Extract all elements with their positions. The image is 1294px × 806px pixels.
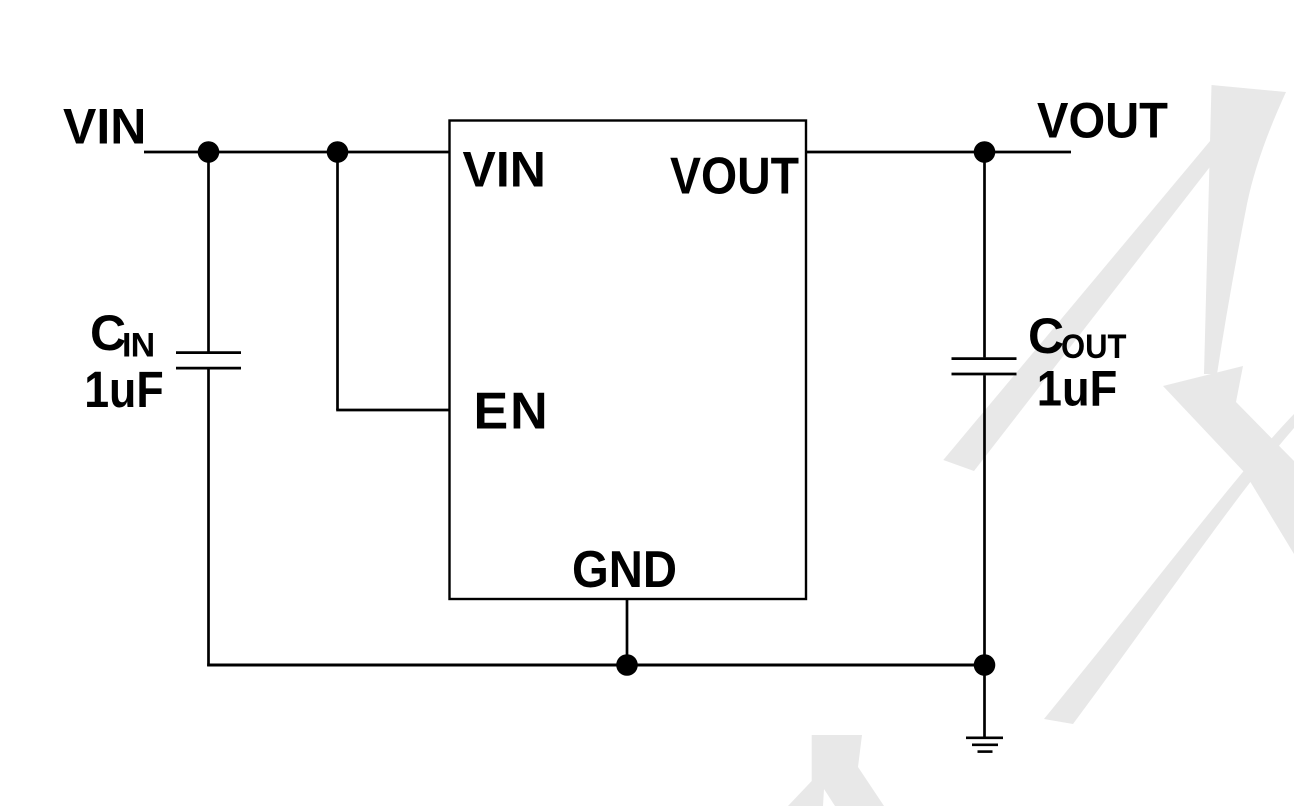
svg-text:GND: GND	[572, 541, 677, 599]
junction node VIN-CIN	[198, 141, 220, 163]
wire COUT top branch	[983, 152, 986, 357]
wire GND pin	[626, 599, 629, 665]
svg-text:VIN: VIN	[463, 142, 546, 198]
svg-text:C: C	[90, 305, 126, 361]
svg-text:C: C	[1028, 308, 1064, 364]
svg-text:VOUT: VOUT	[670, 148, 799, 206]
wire COUT bottom branch	[983, 375, 986, 665]
capacitor C_IN plates	[176, 351, 241, 354]
svg-text:VOUT: VOUT	[1037, 93, 1168, 149]
junction node COUT-ground	[974, 654, 996, 676]
junction node VIN-EN	[327, 141, 349, 163]
wire EN branch horizontal	[336, 409, 449, 412]
svg-text:IN: IN	[122, 327, 154, 365]
junction node VOUT-COUT	[974, 141, 996, 163]
watermark logo	[788, 85, 1294, 806]
svg-text:1uF: 1uF	[1037, 361, 1118, 417]
svg-text:VIN: VIN	[63, 99, 146, 155]
wire VIN to U1	[144, 151, 450, 154]
capacitor C_OUT plates	[952, 357, 1017, 360]
svg-text:1uF: 1uF	[84, 361, 164, 418]
wire CIN top branch	[207, 152, 210, 352]
regulator U1 body	[450, 121, 807, 600]
wire EN branch vertical	[336, 152, 339, 410]
svg-text:EN: EN	[474, 383, 550, 441]
watermark stroke bottom-arrow	[788, 735, 884, 806]
watermark stroke X-southwest-bar	[1044, 414, 1294, 724]
junction node GND-bus	[616, 654, 638, 676]
wire U1 VOUT to output	[806, 151, 1071, 154]
wire ground bus	[207, 664, 985, 667]
wire ground stem	[983, 665, 986, 737]
watermark stroke X-northwest-bar	[1163, 366, 1294, 554]
watermark stroke 4-diagonal	[943, 140, 1231, 471]
watermark stroke 4-right	[1204, 85, 1286, 374]
ground symbol	[966, 736, 1003, 739]
wire CIN bottom branch	[207, 369, 210, 666]
